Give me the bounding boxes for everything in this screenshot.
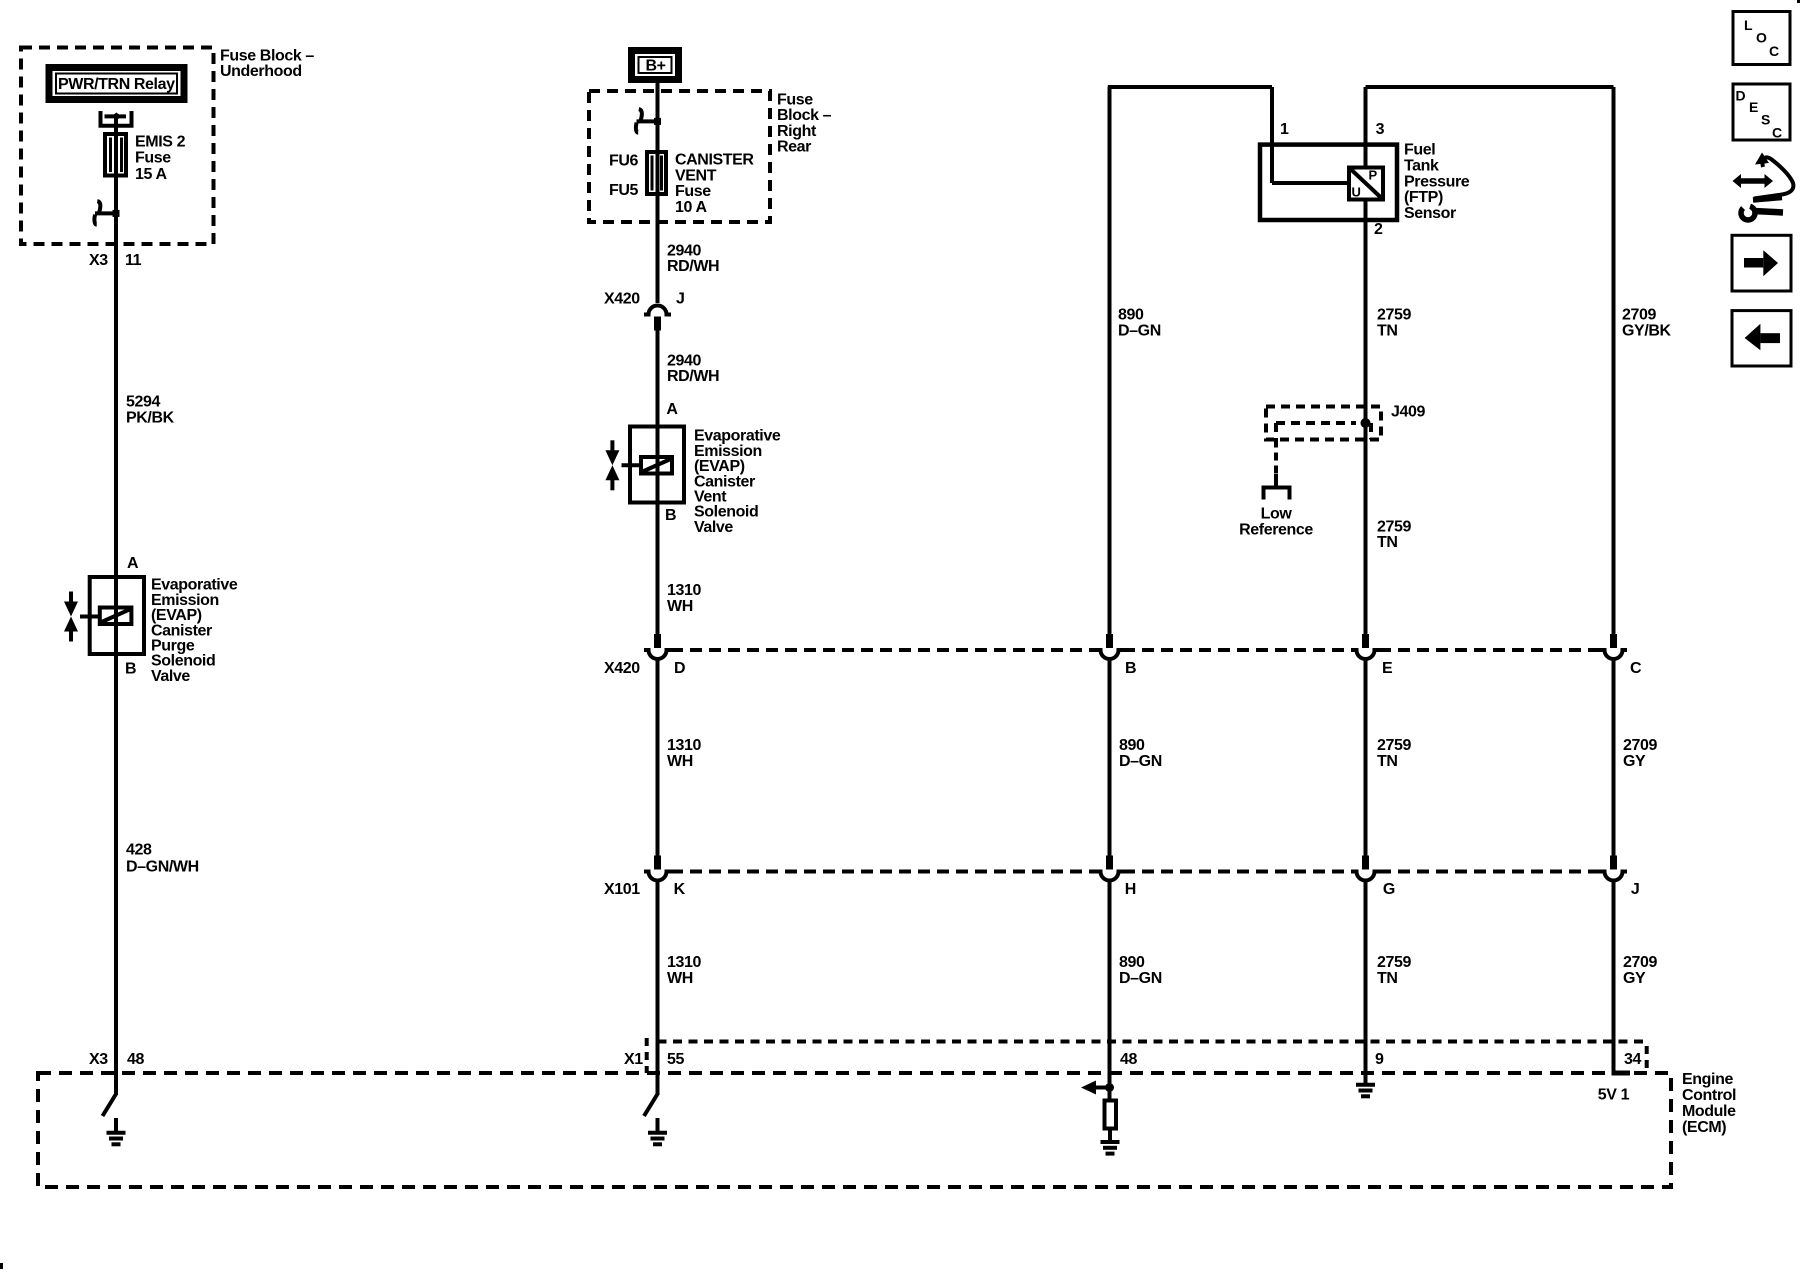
svg-text:X3: X3 (89, 252, 108, 269)
svg-text:Valve: Valve (694, 519, 733, 536)
svg-text:Fuse Block –: Fuse Block – (220, 47, 314, 64)
svg-text:FU5: FU5 (609, 182, 639, 199)
svg-text:1310: 1310 (667, 582, 701, 599)
svg-text:P: P (1369, 168, 1378, 183)
svg-text:5V 1: 5V 1 (1598, 1086, 1630, 1103)
svg-text:890: 890 (1119, 737, 1145, 754)
svg-text:48: 48 (127, 1051, 144, 1068)
svg-text:RD/WH: RD/WH (667, 368, 719, 385)
svg-text:10 A: 10 A (675, 199, 707, 216)
svg-text:D–GN: D–GN (1119, 753, 1162, 770)
svg-text:WH: WH (667, 970, 693, 987)
svg-text:J: J (1631, 881, 1640, 898)
svg-text:VENT: VENT (675, 167, 717, 184)
svg-text:WH: WH (667, 753, 693, 770)
svg-text:890: 890 (1118, 307, 1144, 324)
svg-text:GY: GY (1623, 753, 1646, 770)
svg-text:11: 11 (125, 252, 142, 269)
svg-text:890: 890 (1119, 954, 1145, 971)
svg-text:TN: TN (1377, 970, 1398, 987)
svg-text:Valve: Valve (151, 668, 190, 685)
svg-text:2759: 2759 (1377, 954, 1411, 971)
svg-text:E: E (1749, 99, 1758, 115)
svg-text:TN: TN (1377, 753, 1398, 770)
svg-text:Low: Low (1261, 506, 1293, 523)
svg-text:O: O (1756, 30, 1767, 46)
svg-text:L: L (1744, 17, 1753, 33)
svg-text:D–GN/WH: D–GN/WH (126, 858, 199, 875)
svg-text:C: C (1630, 660, 1642, 677)
svg-text:C: C (1772, 125, 1782, 141)
svg-text:Control: Control (1682, 1087, 1736, 1104)
svg-text:3: 3 (1376, 121, 1385, 138)
svg-text:D–GN: D–GN (1118, 323, 1161, 340)
svg-text:Reference: Reference (1239, 522, 1313, 539)
svg-text:Right: Right (777, 123, 817, 140)
svg-text:K: K (674, 881, 686, 898)
svg-text:G: G (1383, 881, 1395, 898)
svg-text:(FTP): (FTP) (1404, 189, 1443, 206)
svg-text:A: A (127, 555, 139, 572)
svg-text:J409: J409 (1391, 404, 1425, 421)
svg-text:Fuse: Fuse (777, 91, 813, 108)
svg-text:Module: Module (1682, 1103, 1736, 1120)
svg-text:2709: 2709 (1623, 737, 1657, 754)
svg-text:1310: 1310 (667, 954, 701, 971)
svg-text:2759: 2759 (1377, 737, 1411, 754)
svg-text:2709: 2709 (1623, 954, 1657, 971)
svg-text:(ECM): (ECM) (1682, 1119, 1726, 1136)
svg-text:B: B (125, 661, 136, 678)
svg-text:FU6: FU6 (609, 152, 639, 169)
svg-text:B: B (665, 507, 676, 524)
svg-text:E: E (1382, 660, 1393, 677)
svg-text:X101: X101 (604, 881, 640, 898)
svg-text:D–GN: D–GN (1119, 970, 1162, 987)
svg-text:S: S (1761, 112, 1770, 128)
svg-text:X3: X3 (89, 1051, 108, 1068)
svg-text:D: D (674, 660, 685, 677)
svg-text:Fuse: Fuse (135, 150, 171, 167)
svg-text:TN: TN (1377, 534, 1398, 551)
svg-text:B: B (1125, 660, 1136, 677)
svg-text:U: U (1352, 185, 1361, 200)
svg-text:Underhood: Underhood (220, 63, 302, 80)
svg-text:A: A (666, 401, 678, 418)
svg-text:55: 55 (667, 1051, 684, 1068)
svg-text:X420: X420 (604, 660, 640, 677)
svg-text:RD/WH: RD/WH (667, 258, 719, 275)
svg-text:Rear: Rear (777, 139, 811, 156)
svg-text:34: 34 (1624, 1051, 1641, 1068)
svg-text:D: D (1736, 88, 1746, 104)
svg-text:1310: 1310 (667, 737, 701, 754)
svg-text:Tank: Tank (1404, 158, 1439, 175)
svg-text:GY/BK: GY/BK (1622, 323, 1672, 340)
svg-text:Block –: Block – (777, 107, 832, 124)
svg-text:PK/BK: PK/BK (126, 409, 175, 426)
svg-text:J: J (676, 291, 685, 308)
svg-text:1: 1 (1280, 121, 1289, 138)
svg-text:EMIS 2: EMIS 2 (135, 133, 186, 150)
svg-text:Fuse: Fuse (675, 183, 711, 200)
svg-text:2759: 2759 (1377, 518, 1411, 535)
svg-text:48: 48 (1120, 1051, 1137, 1068)
svg-text:Fuel: Fuel (1404, 142, 1435, 159)
svg-text:C: C (1769, 43, 1779, 59)
svg-text:Sensor: Sensor (1404, 205, 1456, 222)
svg-text:15 A: 15 A (135, 166, 167, 183)
svg-text:2759: 2759 (1377, 307, 1411, 324)
svg-text:GY: GY (1623, 970, 1646, 987)
svg-text:9: 9 (1375, 1051, 1384, 1068)
svg-text:Pressure: Pressure (1404, 173, 1470, 190)
svg-text:H: H (1125, 881, 1136, 898)
svg-text:CANISTER: CANISTER (675, 152, 754, 169)
svg-text:X420: X420 (604, 291, 640, 308)
svg-text:X1: X1 (624, 1051, 643, 1068)
svg-text:PWR/TRN Relay: PWR/TRN Relay (58, 76, 175, 93)
svg-text:TN: TN (1377, 323, 1398, 340)
svg-text:2709: 2709 (1622, 307, 1656, 324)
svg-text:2: 2 (1374, 221, 1383, 238)
svg-text:428: 428 (126, 841, 152, 858)
svg-text:B+: B+ (646, 58, 666, 75)
svg-text:5294: 5294 (126, 394, 160, 411)
svg-text:Engine: Engine (1682, 1071, 1733, 1088)
svg-text:WH: WH (667, 598, 693, 615)
